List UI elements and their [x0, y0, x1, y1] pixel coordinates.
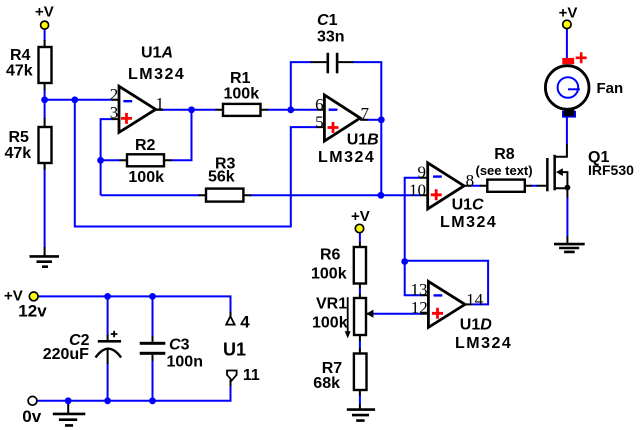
- svg-text:100k: 100k: [128, 169, 164, 186]
- svg-text:9: 9: [418, 163, 427, 182]
- svg-text:13: 13: [411, 280, 428, 299]
- svg-text:4: 4: [240, 313, 250, 332]
- svg-text:8: 8: [466, 171, 475, 190]
- svg-text:12v: 12v: [18, 302, 47, 321]
- svg-text:LM324: LM324: [440, 214, 497, 231]
- svg-text:LM324: LM324: [318, 149, 375, 166]
- svg-text:R6: R6: [320, 247, 341, 264]
- svg-text:U1B: U1B: [347, 131, 379, 148]
- svg-text:U1C: U1C: [452, 197, 484, 214]
- svg-text:LM324: LM324: [455, 335, 512, 352]
- svg-text:220uF: 220uF: [43, 346, 89, 363]
- svg-text:U1: U1: [223, 340, 246, 360]
- svg-text:100k: 100k: [224, 85, 260, 102]
- svg-text:VR1: VR1: [316, 296, 347, 313]
- svg-text:12: 12: [411, 298, 428, 317]
- svg-text:Fan: Fan: [597, 80, 624, 97]
- svg-text:C1: C1: [317, 12, 338, 29]
- svg-text:R8: R8: [494, 146, 515, 163]
- svg-text:100k: 100k: [312, 314, 348, 331]
- svg-text:47k: 47k: [5, 145, 32, 162]
- svg-text:5: 5: [315, 113, 324, 132]
- svg-text:LM324: LM324: [128, 66, 185, 83]
- svg-text:14: 14: [466, 290, 484, 309]
- svg-text:56k: 56k: [208, 169, 235, 186]
- svg-text:IRF530: IRF530: [588, 162, 634, 178]
- svg-text:11: 11: [243, 367, 260, 384]
- svg-text:(see text): (see text): [476, 163, 533, 178]
- svg-text:+V: +V: [559, 5, 578, 22]
- svg-text:U1A: U1A: [141, 45, 173, 62]
- svg-text:7: 7: [361, 104, 370, 123]
- svg-text:100n: 100n: [167, 353, 203, 370]
- svg-text:100k: 100k: [311, 266, 347, 283]
- svg-text:2: 2: [110, 85, 119, 104]
- svg-text:47k: 47k: [6, 62, 33, 79]
- svg-text:1: 1: [156, 94, 165, 113]
- svg-text:+V: +V: [351, 208, 370, 225]
- svg-text:0v: 0v: [22, 407, 41, 426]
- svg-text:68k: 68k: [313, 375, 340, 392]
- svg-text:U1D: U1D: [460, 317, 492, 334]
- svg-text:3: 3: [110, 103, 119, 122]
- svg-text:C3: C3: [169, 337, 190, 354]
- svg-text:6: 6: [315, 95, 324, 114]
- svg-text:R2: R2: [135, 137, 156, 154]
- svg-text:+V: +V: [35, 4, 54, 21]
- svg-text:R5: R5: [9, 129, 30, 146]
- svg-text:10: 10: [409, 180, 426, 199]
- svg-text:33n: 33n: [317, 28, 345, 45]
